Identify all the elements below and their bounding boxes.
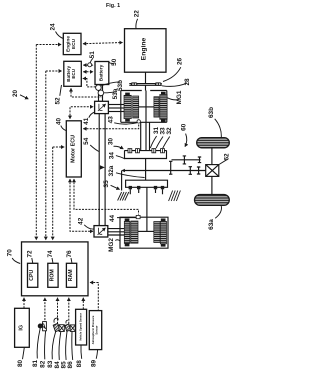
svg-text:51: 51 <box>89 51 96 59</box>
svg-text:34: 34 <box>109 152 116 160</box>
svg-text:42: 42 <box>78 217 85 225</box>
svg-text:Atmospheric Pressure: Atmospheric Pressure <box>91 315 95 344</box>
svg-text:52: 52 <box>55 97 62 105</box>
svg-text:Engine: Engine <box>66 36 72 52</box>
svg-text:80: 80 <box>17 360 24 368</box>
svg-text:MG1: MG1 <box>176 90 183 104</box>
svg-text:44: 44 <box>109 215 116 223</box>
svg-text:83: 83 <box>47 360 54 368</box>
svg-text:35: 35 <box>103 180 110 188</box>
svg-text:ECU: ECU <box>71 38 77 49</box>
svg-text:30: 30 <box>107 138 114 146</box>
svg-text:81: 81 <box>32 360 39 368</box>
svg-text:50: 50 <box>111 58 118 66</box>
svg-text:43: 43 <box>108 116 115 124</box>
svg-text:CPU: CPU <box>29 270 35 281</box>
svg-text:22: 22 <box>133 10 140 18</box>
svg-text:RAM: RAM <box>68 269 74 281</box>
svg-text:76: 76 <box>66 250 73 258</box>
svg-text:63b: 63b <box>208 107 215 118</box>
svg-text:41: 41 <box>83 117 90 125</box>
svg-text:IG: IG <box>19 325 25 331</box>
svg-text:Fig. 1: Fig. 1 <box>106 3 120 9</box>
svg-text:32: 32 <box>166 127 173 135</box>
svg-text:28: 28 <box>184 78 191 86</box>
svg-text:62: 62 <box>224 153 231 161</box>
svg-text:32a: 32a <box>108 165 115 176</box>
svg-text:MG2: MG2 <box>108 238 115 252</box>
svg-text:Motor ECU: Motor ECU <box>70 135 76 163</box>
svg-text:24: 24 <box>50 23 57 31</box>
svg-text:60: 60 <box>181 123 188 131</box>
svg-text:86: 86 <box>67 361 74 369</box>
svg-text:74: 74 <box>47 250 54 258</box>
svg-text:20: 20 <box>12 90 19 98</box>
svg-text:88: 88 <box>76 360 83 368</box>
svg-text:54: 54 <box>83 137 90 145</box>
svg-text:Sensor: Sensor <box>94 325 98 334</box>
svg-text:26: 26 <box>177 58 184 66</box>
svg-text:ROM: ROM <box>50 269 56 281</box>
svg-text:Engine: Engine <box>141 37 148 60</box>
svg-text:70: 70 <box>6 249 13 257</box>
svg-text:40: 40 <box>55 118 62 126</box>
svg-text:63a: 63a <box>208 219 215 230</box>
svg-text:82: 82 <box>39 360 46 368</box>
svg-text:ECU: ECU <box>71 68 76 78</box>
svg-text:Battery: Battery <box>99 64 105 81</box>
svg-text:89: 89 <box>91 360 98 368</box>
svg-text:Vehicle Speed Sensor: Vehicle Speed Sensor <box>79 313 83 341</box>
svg-text:72: 72 <box>27 250 34 258</box>
